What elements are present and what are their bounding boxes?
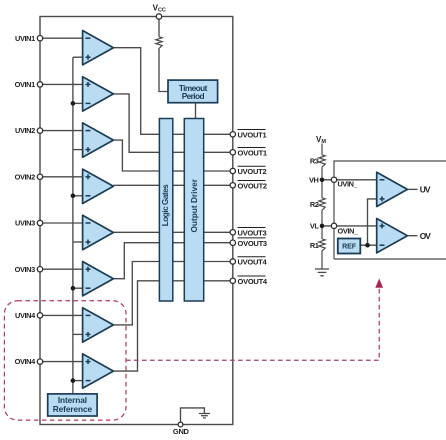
svg-text:OVIN3: OVIN3 (15, 265, 35, 274)
svg-text:VL: VL (310, 222, 320, 231)
svg-text:VH: VH (309, 175, 319, 184)
svg-text:GND: GND (173, 427, 190, 436)
svg-text:OVOUT3: OVOUT3 (238, 239, 267, 248)
svg-text:OV: OV (420, 231, 432, 241)
svg-text:UVIN4: UVIN4 (15, 311, 36, 320)
svg-text:REF: REF (342, 241, 357, 250)
svg-text:UVOUT3: UVOUT3 (238, 229, 267, 238)
svg-text:UVOUT4: UVOUT4 (238, 258, 268, 267)
svg-text:R1: R1 (310, 241, 319, 250)
svg-text:R2: R2 (310, 200, 319, 209)
svg-text:R3: R3 (310, 157, 319, 166)
svg-text:UVOUT2: UVOUT2 (238, 167, 267, 176)
svg-text:OVOUT2: OVOUT2 (238, 182, 267, 191)
svg-text:UVIN3: UVIN3 (15, 219, 35, 228)
svg-text:OVIN4: OVIN4 (15, 357, 36, 366)
svg-text:Period: Period (182, 91, 205, 101)
svg-text:Reference: Reference (53, 404, 93, 414)
svg-text:Logic Gates: Logic Gates (160, 184, 170, 226)
svg-text:OVOUT4: OVOUT4 (238, 277, 268, 286)
svg-text:UVOUT1: UVOUT1 (238, 131, 267, 140)
svg-text:UVIN1: UVIN1 (15, 34, 35, 43)
svg-text:OVIN2: OVIN2 (15, 172, 35, 181)
svg-text:UVIN_: UVIN_ (338, 180, 359, 189)
svg-text:Output Driver: Output Driver (189, 178, 199, 232)
svg-text:OVOUT1: OVOUT1 (238, 149, 267, 158)
svg-text:UV: UV (420, 185, 431, 195)
svg-text:OVIN_: OVIN_ (338, 226, 359, 235)
svg-text:OVIN1: OVIN1 (15, 80, 35, 89)
svg-text:UVIN2: UVIN2 (15, 126, 35, 135)
